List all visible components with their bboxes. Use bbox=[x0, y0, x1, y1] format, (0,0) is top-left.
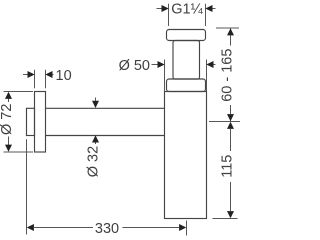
trap body bbox=[165, 92, 207, 219]
dimension 115 bbox=[213, 129, 238, 219]
svg-text:Ø 50: Ø 50 bbox=[119, 58, 150, 74]
dimension diam 50 bbox=[152, 60, 216, 92]
svg-text:60 - 165: 60 - 165 bbox=[220, 49, 236, 102]
neck tube bbox=[173, 41, 200, 80]
wall flange bbox=[35, 92, 46, 153]
dimension diam 32 bbox=[95, 98, 97, 145]
body cap bbox=[167, 79, 206, 92]
union nut bbox=[167, 30, 206, 41]
svg-text:10: 10 bbox=[56, 68, 72, 84]
wire horizontal pipe top bbox=[46, 107, 165, 109]
svg-text:Ø 72: Ø 72 bbox=[0, 104, 15, 135]
svg-text:330: 330 bbox=[95, 221, 119, 237]
dimension 330 bbox=[27, 139, 187, 235]
dimension diam 72 bbox=[4, 92, 34, 153]
dimension 60 - 165 bbox=[209, 28, 240, 122]
svg-text:G1¼: G1¼ bbox=[171, 1, 203, 17]
dimension G1 1/4 bbox=[157, 4, 216, 26]
dimension 10 bbox=[23, 70, 54, 89]
wall socket bbox=[27, 108, 35, 135]
svg-text:115: 115 bbox=[219, 155, 235, 178]
svg-text:Ø 32: Ø 32 bbox=[86, 146, 102, 177]
wire horizontal pipe bottom bbox=[46, 135, 165, 137]
